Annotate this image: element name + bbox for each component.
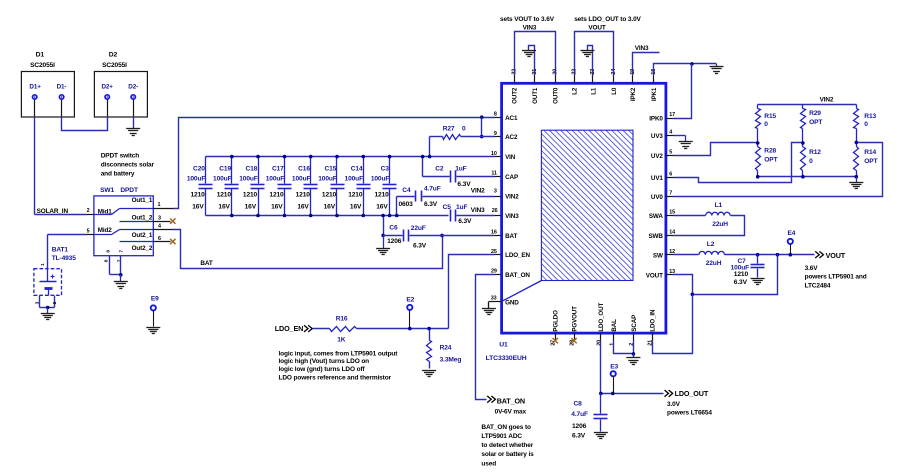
svg-text:1210: 1210 xyxy=(734,271,749,278)
svg-text:1210: 1210 xyxy=(322,191,337,198)
svg-text:to detect whether: to detect whether xyxy=(481,442,533,449)
svg-text:UV2: UV2 xyxy=(651,153,664,160)
svg-text:16V: 16V xyxy=(376,204,388,211)
no-connect X pin 27 xyxy=(553,338,558,343)
svg-text:D1+: D1+ xyxy=(29,83,41,90)
junction xyxy=(408,327,412,331)
svg-text:DPDT: DPDT xyxy=(120,187,138,194)
svg-text:SC2055I: SC2055I xyxy=(102,62,127,69)
ground at R14 xyxy=(849,177,863,189)
svg-text:Out2_1: Out2_1 xyxy=(132,232,153,239)
svg-text:L1: L1 xyxy=(715,202,723,209)
svg-text:LDO_OUT: LDO_OUT xyxy=(675,389,709,398)
pin 1 BAL xyxy=(609,319,618,346)
capacitor C17 100uF xyxy=(266,157,292,216)
svg-text:BAT: BAT xyxy=(505,233,517,240)
capacitor C3 100uF xyxy=(371,157,397,216)
ground at SW1 xyxy=(114,275,128,289)
svg-text:1K: 1K xyxy=(337,337,346,344)
svg-text:BAL: BAL xyxy=(611,319,618,332)
svg-text:BAT1: BAT1 xyxy=(52,247,69,254)
svg-text:1uF: 1uF xyxy=(455,165,466,172)
pin 3 VIN2 xyxy=(505,194,519,201)
svg-text:1: 1 xyxy=(40,263,46,266)
svg-text:solar or battery is: solar or battery is xyxy=(481,451,534,458)
pin 28 PGVOUT xyxy=(570,306,579,346)
junction xyxy=(256,214,260,218)
svg-text:16V: 16V xyxy=(350,204,362,211)
pin 31 OUT1 xyxy=(532,69,539,104)
junction AC2 link xyxy=(480,135,484,139)
svg-text:7: 7 xyxy=(118,250,124,253)
svg-text:OPT: OPT xyxy=(764,156,777,163)
junction xyxy=(335,214,339,218)
junction xyxy=(855,175,859,179)
capacitor C19 100uF xyxy=(213,157,238,216)
svg-text:E9: E9 xyxy=(151,296,159,303)
svg-text:TL-4935: TL-4935 xyxy=(52,255,77,262)
svg-text:SWB: SWB xyxy=(648,233,663,240)
wire VIN3 bracket xyxy=(515,32,556,76)
svg-text:PGLDO: PGLDO xyxy=(553,310,560,332)
svg-text:L2: L2 xyxy=(571,87,578,95)
capacitor C8 4.7uF xyxy=(571,394,607,440)
pin 29 BAT_ON xyxy=(491,269,530,279)
svg-text:C8: C8 xyxy=(574,401,583,408)
svg-text:VOUT: VOUT xyxy=(588,25,605,32)
svg-text:U1: U1 xyxy=(499,341,508,348)
svg-text:16V: 16V xyxy=(271,204,283,211)
svg-text:8: 8 xyxy=(104,259,110,262)
wire switch pin1 to AC1 xyxy=(174,118,502,209)
svg-text:LDO powers reference and therm: LDO powers reference and thermistor xyxy=(279,375,392,382)
label SOLAR_IN xyxy=(37,208,90,215)
svg-text:PGVOUT: PGVOUT xyxy=(571,306,578,332)
svg-text:OUT1: OUT1 xyxy=(532,87,539,104)
svg-text:LDO_OUT: LDO_OUT xyxy=(598,303,605,332)
svg-text:17: 17 xyxy=(669,112,675,118)
no-connect X pin 3 xyxy=(170,218,175,223)
svg-text:R27: R27 xyxy=(443,125,455,132)
svg-text:R28: R28 xyxy=(764,147,776,154)
svg-text:sets VOUT to 3.6V: sets VOUT to 3.6V xyxy=(500,16,555,23)
junction xyxy=(230,155,234,159)
junction xyxy=(690,62,694,66)
svg-text:UV3: UV3 xyxy=(651,133,664,140)
ground at C8 xyxy=(594,433,608,439)
svg-text:0V-6V max: 0V-6V max xyxy=(495,408,527,415)
port LDO_OUT xyxy=(665,389,709,398)
svg-text:5: 5 xyxy=(87,229,90,235)
wire UV bottom row xyxy=(758,176,857,178)
wire pin 31 to ground xyxy=(529,46,535,76)
ground at UV3 xyxy=(679,136,693,149)
svg-text:0: 0 xyxy=(764,121,768,128)
junction xyxy=(691,293,695,297)
wire R27 leg xyxy=(429,137,431,157)
battery pins 3 2 xyxy=(35,296,59,308)
svg-text:C19: C19 xyxy=(219,166,231,173)
svg-text:16V: 16V xyxy=(218,204,230,211)
svg-text:C5: C5 xyxy=(443,204,452,211)
svg-text:1210: 1210 xyxy=(296,191,311,198)
wire IPK1 to ground xyxy=(654,64,717,76)
svg-text:11: 11 xyxy=(491,170,497,176)
junction xyxy=(256,155,260,159)
svg-text:powers LT6654: powers LT6654 xyxy=(667,410,712,417)
inductor L1 22uH xyxy=(706,202,730,228)
battery BAT1 TL-4935 xyxy=(34,247,76,296)
svg-text:6.3V: 6.3V xyxy=(572,432,586,439)
svg-text:6: 6 xyxy=(158,236,161,242)
resistor R28 OPT xyxy=(756,143,778,177)
svg-text:100uF: 100uF xyxy=(292,175,311,182)
svg-text:IPK0: IPK0 xyxy=(649,116,663,123)
junction xyxy=(632,352,636,356)
pin 23 L1 xyxy=(590,69,597,95)
svg-text:R12: R12 xyxy=(809,149,821,156)
svg-text:C3: C3 xyxy=(381,166,390,173)
svg-text:L2: L2 xyxy=(707,241,715,248)
pin 11 CAP xyxy=(491,170,518,180)
junction xyxy=(388,155,392,159)
svg-text:IPK2: IPK2 xyxy=(630,87,637,101)
testpoint E4 xyxy=(787,230,795,254)
svg-text:DPDT switch: DPDT switch xyxy=(101,153,140,160)
pin 33 GND stub xyxy=(489,301,502,303)
svg-text:1210: 1210 xyxy=(243,191,258,198)
svg-text:6: 6 xyxy=(669,172,672,178)
svg-text:3.0V: 3.0V xyxy=(667,401,681,408)
pin 30 OUT0 xyxy=(552,69,559,104)
wire Mid2 to battery xyxy=(48,235,94,269)
svg-text:1uF: 1uF xyxy=(456,204,467,211)
wire AC1-AC2 link xyxy=(481,118,483,137)
wire BAL SCAP to ground xyxy=(614,341,634,354)
svg-text:logic high (Vout) turns LDO on: logic high (Vout) turns LDO on xyxy=(279,358,370,365)
junction xyxy=(428,155,432,159)
junction xyxy=(395,214,399,218)
pin 17 IPK0 xyxy=(649,112,675,122)
svg-text:33: 33 xyxy=(491,296,497,302)
svg-text:16V: 16V xyxy=(245,204,257,211)
wire SW to VOUT port xyxy=(725,254,815,256)
svg-text:C4: C4 xyxy=(402,187,411,194)
ground at E9 xyxy=(146,328,160,334)
wire D1- to D2+ xyxy=(62,100,108,131)
svg-text:SCAP: SCAP xyxy=(631,315,638,332)
svg-text:100uF: 100uF xyxy=(239,175,258,182)
svg-text:R29: R29 xyxy=(809,110,821,117)
svg-text:7: 7 xyxy=(117,259,123,262)
wire LDO_OUT pin 20 xyxy=(601,341,664,394)
ground at IPK1 xyxy=(710,64,724,74)
svg-text:1210: 1210 xyxy=(190,191,205,198)
svg-text:1206: 1206 xyxy=(387,238,402,245)
pin 9 AC2 xyxy=(494,131,518,141)
no-connect X pin 6 xyxy=(170,239,175,244)
svg-text:4.7uF: 4.7uF xyxy=(424,186,441,193)
svg-text:UV1: UV1 xyxy=(651,175,664,182)
junction xyxy=(801,175,805,179)
wire SOLAR_IN xyxy=(35,214,94,216)
svg-text:VIN2: VIN2 xyxy=(820,97,834,104)
svg-text:29: 29 xyxy=(491,269,497,275)
svg-text:logic input, comes from LTP590: logic input, comes from LTP5901 output xyxy=(279,350,399,357)
svg-text:LTC2484: LTC2484 xyxy=(805,282,831,289)
junction xyxy=(309,214,313,218)
switch SW1 DPDT xyxy=(94,187,154,262)
svg-text:8: 8 xyxy=(105,250,111,253)
hatched die area xyxy=(541,130,633,280)
wire C2 leg xyxy=(422,157,424,177)
junction xyxy=(855,141,859,145)
svg-text:VIN3: VIN3 xyxy=(471,207,485,214)
svg-text:and battery: and battery xyxy=(101,170,135,177)
capacitor C2 1uF xyxy=(423,165,502,188)
junction AC1/AC2 link top xyxy=(480,115,484,119)
junction xyxy=(46,306,50,310)
svg-text:D2+: D2+ xyxy=(102,83,114,90)
wire rail to BAT line xyxy=(383,216,385,236)
junction xyxy=(283,214,287,218)
svg-text:22uH: 22uH xyxy=(712,221,728,228)
svg-text:16V: 16V xyxy=(297,204,309,211)
junction xyxy=(789,253,793,257)
svg-text:2: 2 xyxy=(87,208,90,214)
wire pin 23 to ground xyxy=(588,46,593,76)
resistor R29 OPT xyxy=(801,105,823,143)
ground at GND pin xyxy=(482,302,496,315)
resistor R16 1K xyxy=(313,316,449,344)
capacitor C15 100uF xyxy=(318,157,344,216)
junction xyxy=(599,392,603,396)
svg-text:C14: C14 xyxy=(351,166,363,173)
wire SW xyxy=(666,254,699,256)
pin 4 UV3 xyxy=(651,130,672,140)
junction xyxy=(381,234,385,238)
port LDO_EN xyxy=(275,324,312,333)
junction xyxy=(381,214,385,218)
svg-text:3.3Meg: 3.3Meg xyxy=(440,356,462,363)
wire UV1 xyxy=(666,143,803,183)
pin 2 SCAP xyxy=(629,315,638,346)
svg-text:LDO_IN: LDO_IN xyxy=(650,309,657,332)
svg-text:6.3V: 6.3V xyxy=(424,201,438,208)
svg-text:VIN3: VIN3 xyxy=(505,213,519,220)
wire UV3 to ground xyxy=(666,135,686,137)
svg-text:OUT0: OUT0 xyxy=(553,87,560,104)
svg-text:C18: C18 xyxy=(245,166,257,173)
svg-text:disconnects solar: disconnects solar xyxy=(101,162,155,169)
svg-text:10: 10 xyxy=(491,151,497,157)
pin 8 AC1 xyxy=(494,111,518,121)
terminal D2+ xyxy=(105,95,109,99)
ground at R24 xyxy=(422,371,436,377)
terminal D1+ xyxy=(33,95,37,99)
ground at D2- xyxy=(126,129,140,136)
pin 19 IPK2 xyxy=(630,69,637,101)
svg-text:OPT: OPT xyxy=(809,119,822,126)
svg-text:6.3V: 6.3V xyxy=(734,279,748,286)
ground at C6 xyxy=(376,235,390,254)
svg-text:AC2: AC2 xyxy=(505,134,518,141)
svg-text:6.3V: 6.3V xyxy=(458,218,472,225)
svg-text:C6: C6 xyxy=(389,225,398,232)
pin 22 L2 xyxy=(571,69,578,95)
svg-text:VIN2: VIN2 xyxy=(505,194,519,201)
junction xyxy=(362,155,366,159)
junction xyxy=(283,155,287,159)
svg-text:1206: 1206 xyxy=(572,423,587,430)
svg-text:8: 8 xyxy=(494,111,497,117)
wire VIN rail (cap bank top) xyxy=(206,156,502,158)
svg-text:3.6V: 3.6V xyxy=(805,265,819,272)
svg-text:4.7uF: 4.7uF xyxy=(571,411,588,418)
svg-text:0: 0 xyxy=(809,158,813,165)
svg-text:2: 2 xyxy=(52,301,58,304)
pin 12 SW xyxy=(653,249,675,259)
op-amp U1 LTC3330EUH outline xyxy=(502,83,666,333)
wire C4 leg xyxy=(396,197,398,216)
svg-text:16V: 16V xyxy=(324,204,336,211)
switch common pins 8 7 to ground xyxy=(110,256,121,275)
svg-text:0: 0 xyxy=(462,125,466,132)
svg-text:LDO_EN: LDO_EN xyxy=(505,252,530,259)
svg-text:VIN2: VIN2 xyxy=(471,187,485,194)
note BAT_ON xyxy=(481,424,534,467)
svg-text:VOUT: VOUT xyxy=(646,272,663,279)
note VOUT xyxy=(805,265,867,290)
pin 10 VIN xyxy=(491,151,516,161)
svg-text:OPT: OPT xyxy=(864,158,877,165)
junction xyxy=(427,327,431,331)
svg-text:SW1: SW1 xyxy=(100,187,114,194)
svg-text:22uH: 22uH xyxy=(706,260,722,267)
svg-text:UV0: UV0 xyxy=(651,194,664,201)
svg-text:Mid1: Mid1 xyxy=(98,208,112,215)
svg-text:3: 3 xyxy=(158,215,161,221)
svg-text:7: 7 xyxy=(669,191,672,197)
svg-text:LDO_EN: LDO_EN xyxy=(275,324,303,333)
connector D2 xyxy=(94,52,147,118)
svg-text:100uF: 100uF xyxy=(266,175,285,182)
junction xyxy=(335,155,339,159)
wire IPK2 VIN3 label xyxy=(633,53,660,76)
svg-text:BAT_ON: BAT_ON xyxy=(505,272,530,279)
junction BAT xyxy=(440,234,444,238)
svg-text:OUT2: OUT2 xyxy=(511,87,518,104)
note DPDT switch xyxy=(101,153,155,178)
pin 13 VOUT xyxy=(646,269,675,279)
testpoint E3 xyxy=(610,364,618,394)
resistor R24 3.3Meg xyxy=(427,329,462,369)
testpoint E9 xyxy=(151,296,159,327)
capacitor C18 100uF xyxy=(239,157,264,216)
svg-text:sets LDO_OUT to 3.0V: sets LDO_OUT to 3.0V xyxy=(574,16,641,23)
pin 18 IPK1 xyxy=(651,69,658,101)
svg-text:1: 1 xyxy=(158,202,161,208)
wire IPK0 xyxy=(666,64,692,119)
note LDO_OUT xyxy=(667,401,712,417)
svg-text:AC1: AC1 xyxy=(505,115,518,122)
wire SWA xyxy=(666,215,706,217)
pin 32 OUT2 xyxy=(511,69,518,104)
label VIN2 net xyxy=(471,187,497,194)
svg-text:BAT_ON: BAT_ON xyxy=(497,396,525,405)
junction xyxy=(119,273,123,277)
wire D2- to ground xyxy=(133,100,135,129)
label VIN3 net xyxy=(471,207,498,214)
svg-text:100uF: 100uF xyxy=(345,175,364,182)
svg-text:4: 4 xyxy=(158,224,161,230)
svg-text:LTC3330EUH: LTC3330EUH xyxy=(486,355,527,362)
svg-text:9: 9 xyxy=(494,131,497,137)
pin 15 SWA xyxy=(649,210,675,220)
svg-text:100uF: 100uF xyxy=(187,175,206,182)
svg-text:BAT_ON goes to: BAT_ON goes to xyxy=(481,424,531,431)
svg-text:20: 20 xyxy=(596,340,602,346)
junction xyxy=(611,392,615,396)
svg-text:22uF: 22uF xyxy=(411,225,426,232)
svg-text:E2: E2 xyxy=(406,296,414,303)
terminal D1- xyxy=(59,95,63,99)
wire LDO_EN to pin 25 xyxy=(449,255,502,329)
svg-text:0: 0 xyxy=(864,121,868,128)
svg-text:1: 1 xyxy=(609,343,615,346)
svg-text:E3: E3 xyxy=(610,364,618,371)
svg-text:100uF: 100uF xyxy=(318,175,337,182)
terminal D2- xyxy=(131,95,135,99)
svg-text:R13: R13 xyxy=(864,113,876,120)
svg-text:4: 4 xyxy=(669,130,672,136)
junction xyxy=(388,214,392,218)
svg-text:D2: D2 xyxy=(109,52,118,59)
ground at pin 23 xyxy=(580,51,594,57)
svg-text:25: 25 xyxy=(491,249,497,255)
svg-text:R15: R15 xyxy=(764,113,776,120)
svg-text:16: 16 xyxy=(491,230,497,236)
pin 6 Out2_1 stub xyxy=(154,236,171,242)
pin 7 UV0 xyxy=(651,191,672,201)
capacitor C14 100uF xyxy=(345,157,371,216)
note logic input xyxy=(279,350,399,381)
svg-text:D1: D1 xyxy=(36,52,45,59)
wire VIN2 rail xyxy=(758,104,857,106)
svg-text:D2-: D2- xyxy=(128,83,138,90)
junction xyxy=(776,253,780,257)
diagonal GND line inside U1 xyxy=(502,281,542,302)
wire D1+ to SOLAR_IN xyxy=(34,100,36,215)
ground at pin 31 xyxy=(522,51,536,57)
pin 27 PGLDO xyxy=(551,310,560,346)
wire L1 to SWB xyxy=(666,216,745,236)
connector D1 xyxy=(21,52,74,118)
pin 25 LDO_EN xyxy=(491,249,530,259)
no-connect X pin 28 xyxy=(571,338,576,343)
svg-text:VIN: VIN xyxy=(505,154,516,161)
inductor L2 22uH xyxy=(699,241,725,267)
wire pin 29 BAT_ON xyxy=(476,275,502,400)
svg-text:used: used xyxy=(481,460,496,467)
junction xyxy=(756,141,760,145)
resistor R13 0 xyxy=(854,105,877,143)
svg-text:BAT: BAT xyxy=(200,260,213,267)
svg-text:100uF: 100uF xyxy=(213,175,232,182)
svg-text:1210: 1210 xyxy=(374,191,389,198)
resistor R14 OPT xyxy=(854,143,878,177)
pin 21 LDO_IN xyxy=(648,309,657,346)
